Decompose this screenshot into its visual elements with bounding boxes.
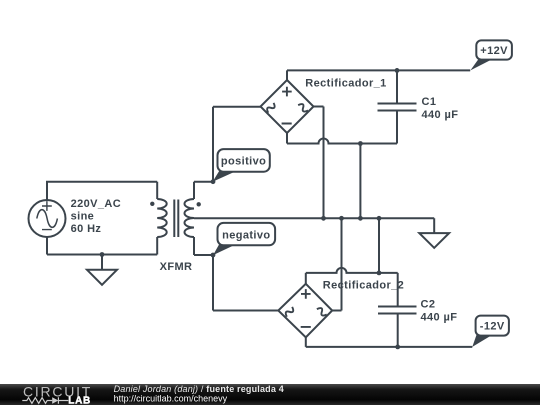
svg-text:XFMR: XFMR (160, 261, 193, 273)
svg-text:+12V: +12V (480, 45, 508, 57)
svg-text:positivo: positivo (221, 156, 266, 168)
svg-text:-12V: -12V (480, 321, 505, 333)
svg-text:440 µF: 440 µF (421, 311, 458, 323)
svg-text:C1: C1 (422, 96, 437, 108)
svg-text:sine: sine (71, 211, 95, 223)
svg-text:Rectificador_2: Rectificador_2 (323, 279, 404, 291)
svg-text:440 µF: 440 µF (422, 109, 459, 121)
svg-text:negativo: negativo (222, 230, 270, 242)
svg-text:http://circuitlab.com/chenevy: http://circuitlab.com/chenevy (114, 393, 228, 403)
svg-text:220V_AC: 220V_AC (71, 198, 122, 210)
svg-text:C2: C2 (421, 298, 436, 310)
svg-text:LAB: LAB (68, 395, 91, 405)
svg-text:Rectificador_1: Rectificador_1 (305, 77, 386, 89)
svg-text:60 Hz: 60 Hz (71, 223, 102, 235)
